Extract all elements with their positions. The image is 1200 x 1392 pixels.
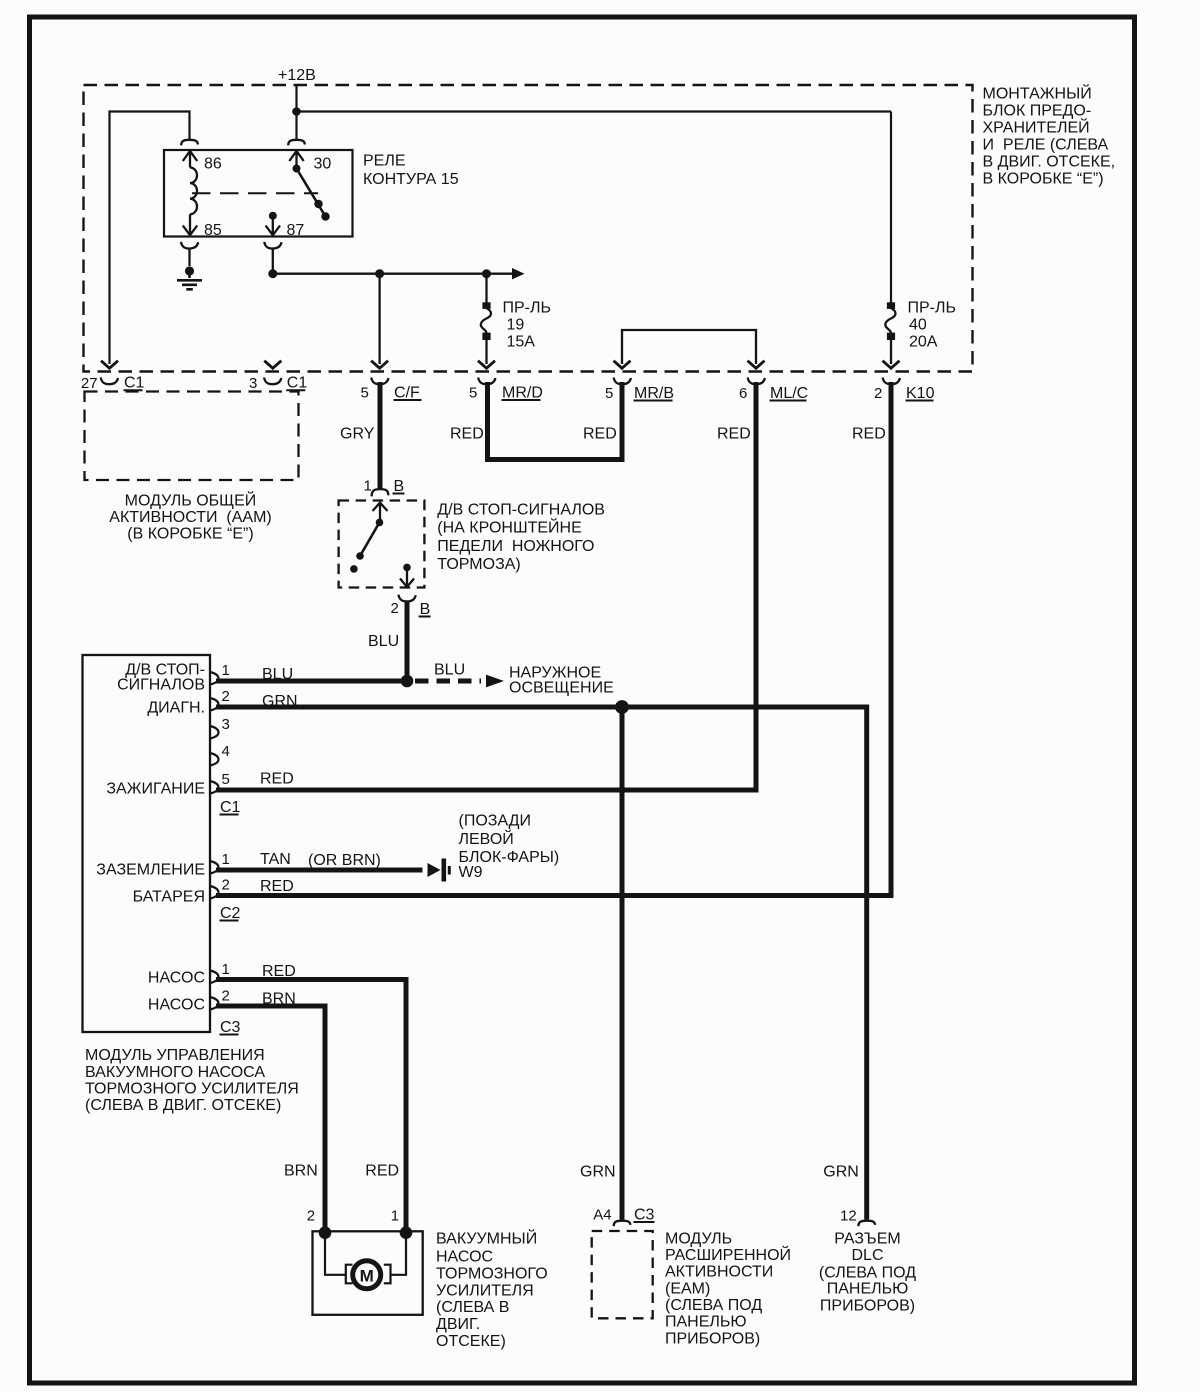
svg-text:DLC: DLC [851, 1247, 883, 1264]
node pin 87 bus junction [268, 269, 277, 278]
relay pin 87 arrow [266, 216, 280, 236]
svg-text:(СЛЕВА ПОД: (СЛЕВА ПОД [819, 1264, 916, 1281]
wire GRY from C/F to stop lamp switch [378, 382, 383, 489]
svg-text:GRN: GRN [823, 1164, 859, 1181]
arrow pin 87 bus continuation [512, 268, 525, 279]
svg-text:20А: 20А [909, 334, 938, 351]
wire BLU dashed to exterior lighting [415, 679, 481, 684]
node branch to C/F [375, 269, 384, 278]
svg-text:АКТИВНОСТИ: АКТИВНОСТИ [665, 1264, 773, 1281]
svg-text:(СЛЕВА В: (СЛЕВА В [436, 1299, 509, 1316]
svg-text:В ДВИГ. ОТСЕКЕ,: В ДВИГ. ОТСЕКЕ, [983, 154, 1116, 171]
svg-text:УСИЛИТЕЛЯ: УСИЛИТЕЛЯ [436, 1282, 534, 1299]
svg-text:RED: RED [583, 426, 617, 443]
svg-text:BLU: BLU [434, 662, 465, 679]
svg-text:ОТСЕКЕ): ОТСЕКЕ) [436, 1333, 506, 1350]
wire RED from ML/C to module pin 5 [216, 382, 756, 790]
svg-text:БЛОК ПРЕДО-: БЛОК ПРЕДО- [983, 103, 1092, 120]
svg-text:ПЕДЕЛИ НОЖНОГО: ПЕДЕЛИ НОЖНОГО [437, 538, 594, 555]
svg-text:C1: C1 [124, 375, 145, 392]
svg-text:ХРАНИТЕЛЕЙ: ХРАНИТЕЛЕЙ [983, 118, 1090, 137]
wire fuse 40 feed drop [890, 112, 892, 306]
connector foot below relay pin 85 [181, 242, 198, 249]
connector hat above relay pin 30 [288, 140, 305, 146]
svg-text:ВАКУУМНОГО НАСОСА: ВАКУУМНОГО НАСОСА [85, 1064, 265, 1081]
wire pin 87 horizontal bus [273, 273, 512, 275]
svg-text:ЗАЖИГАНИЕ: ЗАЖИГАНИЕ [106, 781, 205, 798]
svg-text:ДВИГ.: ДВИГ. [436, 1316, 480, 1333]
svg-text:+12В: +12В [278, 67, 316, 84]
svg-text:ML/C: ML/C [770, 385, 808, 402]
svg-text:RED: RED [450, 426, 484, 443]
svg-text:3: 3 [222, 716, 230, 733]
svg-text:1: 1 [364, 478, 372, 495]
wire TAN module ground pin to W9 [216, 868, 423, 873]
svg-text:ПРИБОРОВ): ПРИБОРОВ) [665, 1330, 760, 1347]
svg-text:MR/D: MR/D [502, 385, 543, 402]
connector foot 6 ML/C [748, 378, 765, 385]
svg-text:СИГНАЛОВ: СИГНАЛОВ [117, 677, 205, 694]
svg-text:BRN: BRN [284, 1162, 318, 1179]
wire BLU module pin 1 to junction [216, 679, 407, 684]
wire GRN branch down to EAM [620, 707, 625, 1220]
vacuum pump box [313, 1231, 423, 1315]
wire relay pin 85 to ground [188, 249, 190, 267]
node junction +12V bus [292, 107, 301, 116]
svg-text:C/F: C/F [394, 385, 420, 402]
svg-text:15А: 15А [507, 334, 536, 351]
svg-text:2: 2 [874, 385, 882, 402]
svg-text:МОДУЛЬ УПРАВЛЕНИЯ: МОДУЛЬ УПРАВЛЕНИЯ [85, 1047, 265, 1064]
svg-text:КОНТУРА 15: КОНТУРА 15 [363, 171, 459, 188]
relay pin 30 arrow [289, 151, 303, 169]
wire relay pin 87 down to bus node [272, 249, 274, 274]
wire RED from K10 to module battery pin [216, 382, 891, 896]
connector foot 5 MR/D [478, 378, 495, 385]
svg-text:НАСОС: НАСОС [148, 970, 205, 987]
svg-text:B: B [394, 478, 405, 495]
svg-text:GRN: GRN [580, 1164, 616, 1181]
stop lamp switch dashed box [339, 501, 425, 588]
svg-text:40: 40 [909, 317, 927, 334]
svg-text:2: 2 [391, 600, 399, 617]
ground symbol G1 [185, 266, 194, 275]
svg-text:М: М [360, 1267, 374, 1286]
arrow into connector 27 C1 [101, 361, 118, 369]
connector hat above relay pin 86 [181, 140, 198, 146]
connector foot 27 C1 [101, 378, 118, 385]
wire fuse 19 to connector MR/D [485, 339, 487, 364]
svg-text:ПАНЕЛЬЮ: ПАНЕЛЬЮ [827, 1280, 909, 1297]
connector foot 3 C1 [264, 378, 281, 385]
svg-text:МОНТАЖНЫЙ: МОНТАЖНЫЙ [983, 84, 1092, 103]
svg-text:ТОРМОЗНОГО: ТОРМОЗНОГО [436, 1266, 548, 1283]
svg-text:RED: RED [852, 426, 886, 443]
node GRN junction [615, 700, 629, 714]
node pump pin 1 [400, 1226, 413, 1239]
svg-text:MR/B: MR/B [634, 385, 674, 402]
svg-text:МОДУЛЬ ОБЩЕЙ: МОДУЛЬ ОБЩЕЙ [125, 491, 257, 510]
wire BLU from switch pin 2 to junction [405, 601, 410, 682]
wire branch down to connector C/F [378, 274, 380, 364]
svg-text:ПР-ЛЬ: ПР-ЛЬ [908, 300, 957, 317]
arrow into connector 6 ML/C [748, 361, 765, 369]
module pin 1 C3 [210, 971, 219, 984]
svg-text:ТОРМОЗНОГО УСИЛИТЕЛЯ: ТОРМОЗНОГО УСИЛИТЕЛЯ [85, 1081, 299, 1098]
switch pin 1 arrow [373, 503, 388, 523]
switch blade end node [356, 552, 364, 560]
svg-text:85: 85 [204, 222, 222, 239]
wire loop MR/B to ML/C [622, 330, 756, 364]
relay coil-contact dashed link [192, 192, 318, 194]
svg-text:C3: C3 [220, 1019, 241, 1036]
svg-text:(В КОРОБКЕ “Е”): (В КОРОБКЕ “Е”) [127, 525, 253, 542]
svg-text:30: 30 [314, 156, 332, 173]
ground W9 symbol [428, 863, 441, 877]
switch pin 2 arrow [400, 567, 414, 587]
svg-text:C1: C1 [287, 375, 308, 392]
switch pin 2 node [403, 564, 411, 572]
connector foot 5 C/F [371, 378, 388, 385]
relay contact pivot node [293, 165, 301, 173]
arrow into connector 5 C/F [371, 361, 388, 369]
svg-text:3: 3 [249, 375, 257, 392]
svg-text:ОСВЕЩЕНИЕ: ОСВЕЩЕНИЕ [509, 680, 614, 697]
arrow BLU to exterior lighting [486, 675, 504, 688]
wire +12V drop to relay pin 30 [295, 85, 297, 140]
svg-text:(СЛЕВА В ДВИГ. ОТСЕКЕ): (СЛЕВА В ДВИГ. ОТСЕКЕ) [85, 1097, 281, 1114]
wire fuse 40 to connector K10 [890, 339, 892, 364]
relay pin 86 arrow [183, 151, 197, 168]
svg-text:ЛЕВОЙ: ЛЕВОЙ [459, 829, 514, 848]
svg-text:GRY: GRY [340, 426, 375, 443]
node pump pin 2 [319, 1226, 332, 1239]
svg-text:5: 5 [469, 385, 477, 402]
svg-text:5: 5 [361, 385, 369, 402]
svg-text:BRN: BRN [262, 991, 296, 1008]
module pin 1 C2 [210, 861, 219, 874]
wire +12V bus to fuse 40 [297, 110, 892, 112]
svg-text:2: 2 [222, 988, 230, 1005]
motor M1 circle [353, 1261, 381, 1289]
relay contact blade [297, 169, 326, 217]
switch blade [360, 522, 380, 556]
module pin 2 C1 [210, 698, 219, 711]
svg-text:A4: A4 [593, 1207, 611, 1224]
arrow into connector 5 MR/B [614, 361, 631, 369]
svg-text:НАСОС: НАСОС [148, 997, 205, 1014]
relay K (circuit 15) box [164, 150, 353, 237]
wire branch down to fuse 19 [485, 274, 487, 305]
svg-text:87: 87 [287, 222, 305, 239]
relay pin 85 arrow [183, 214, 197, 235]
svg-text:МОДУЛЬ: МОДУЛЬ [665, 1230, 732, 1247]
svg-text:6: 6 [739, 385, 747, 402]
arrow into connector 2 K10 [883, 361, 900, 369]
svg-text:РЕЛЕ: РЕЛЕ [363, 153, 406, 170]
svg-text:ЗАЗЕМЛЕНИЕ: ЗАЗЕМЛЕНИЕ [96, 862, 205, 879]
module pin 2 C2 [210, 886, 219, 899]
svg-text:Д/В СТОП-СИГНАЛОВ: Д/В СТОП-СИГНАЛОВ [437, 502, 605, 519]
svg-text:1: 1 [222, 851, 230, 868]
svg-text:C2: C2 [220, 905, 241, 922]
arrow into connector 3 C1 [264, 361, 281, 369]
svg-text:1: 1 [222, 662, 230, 679]
module pin 1 C1 [210, 672, 219, 685]
node branch to fuse 19 [482, 269, 491, 278]
svg-text:19: 19 [507, 317, 525, 334]
svg-text:ПРИБОРОВ): ПРИБОРОВ) [820, 1298, 915, 1315]
svg-text:RED: RED [717, 426, 751, 443]
relay coil [190, 168, 197, 215]
svg-text:RED: RED [262, 963, 296, 980]
svg-text:(ПОЗАДИ: (ПОЗАДИ [459, 813, 531, 830]
svg-text:2: 2 [222, 688, 230, 705]
connector hat at switch pin 1 [372, 489, 389, 496]
svg-text:27: 27 [81, 375, 98, 392]
module pin 4 C1 [210, 753, 219, 766]
AAM module dashed box [85, 392, 299, 481]
connector foot below switch pin 2 [399, 595, 416, 602]
wire RED loop MR/D to MR/B [488, 382, 623, 460]
svg-text:RED: RED [365, 1162, 399, 1179]
svg-text:GRN: GRN [262, 693, 298, 710]
fuse/relay block dashed box [84, 85, 973, 372]
svg-text:ТОРМОЗА): ТОРМОЗА) [437, 556, 520, 573]
svg-text:BLU: BLU [368, 633, 399, 650]
module pin 5 C1 [210, 781, 219, 794]
wire BRN module pump pin 2 to vacuum pump [216, 1006, 325, 1231]
svg-text:РАЗЪЕМ: РАЗЪЕМ [834, 1230, 900, 1247]
arrow into connector 5 MR/D [478, 361, 495, 369]
svg-text:2: 2 [222, 877, 230, 894]
svg-text:РАСШИРЕННОЙ: РАСШИРЕННОЙ [665, 1245, 791, 1264]
pump control module box [83, 655, 211, 1032]
svg-text:ДИАГН.: ДИАГН. [147, 700, 205, 717]
svg-text:B: B [420, 601, 431, 618]
switch throw contact node [350, 565, 358, 573]
svg-text:И РЕЛЕ (СЛЕВА: И РЕЛЕ (СЛЕВА [983, 137, 1109, 154]
svg-text:ПАНЕЛЬЮ: ПАНЕЛЬЮ [665, 1314, 747, 1331]
EAM module dashed box [592, 1231, 653, 1318]
svg-text:(OR BRN): (OR BRN) [308, 852, 381, 869]
svg-text:В КОРОБКЕ “Е”): В КОРОБКЕ “Е”) [983, 171, 1104, 188]
svg-text:W9: W9 [459, 864, 483, 881]
svg-text:5: 5 [605, 385, 613, 402]
svg-text:5: 5 [222, 771, 230, 788]
pump internal wire pin 2 [325, 1233, 346, 1275]
wire relay pin 86 to connector 27 [110, 112, 190, 365]
svg-text:1: 1 [222, 961, 230, 978]
svg-text:12: 12 [840, 1208, 857, 1225]
svg-text:RED: RED [260, 770, 294, 787]
svg-text:НАСОС: НАСОС [436, 1249, 493, 1266]
pump internal wire pin 1 [391, 1233, 406, 1275]
svg-text:АКТИВНОСТИ (ААМ): АКТИВНОСТИ (ААМ) [109, 509, 271, 526]
switch pivot node [376, 519, 384, 527]
connector hat at EAM [614, 1221, 631, 1227]
connector hat at DLC [858, 1221, 875, 1227]
svg-text:K10: K10 [906, 385, 935, 402]
svg-text:BLU: BLU [262, 666, 293, 683]
module pin 3 C1 [210, 726, 219, 739]
relay blade end node [314, 200, 322, 208]
svg-text:(НА КРОНШТЕЙНЕ: (НА КРОНШТЕЙНЕ [437, 518, 581, 537]
svg-text:C3: C3 [634, 1207, 655, 1224]
wire GRN module pin 2 to DLC [216, 707, 867, 1220]
node BLU junction [401, 675, 414, 688]
connector foot 5 MR/B [614, 378, 631, 385]
svg-text:4: 4 [222, 743, 230, 760]
relay contact 87 throw node [321, 212, 329, 220]
svg-text:C1: C1 [220, 799, 241, 816]
module pin 2 C3 [210, 997, 219, 1010]
svg-text:(ЕАМ): (ЕАМ) [665, 1280, 710, 1297]
svg-text:86: 86 [204, 156, 222, 173]
svg-text:TAN: TAN [260, 851, 291, 868]
wire RED module pump pin 1 to vacuum pump [216, 980, 406, 1232]
svg-text:ПР-ЛЬ: ПР-ЛЬ [503, 300, 552, 317]
connector foot below relay pin 87 [264, 242, 281, 249]
svg-text:RED: RED [260, 878, 294, 895]
connector foot 2 K10 [883, 378, 900, 385]
svg-text:2: 2 [307, 1208, 315, 1225]
fuse F19 [482, 302, 490, 309]
motor terminal left [346, 1265, 353, 1284]
svg-text:1: 1 [391, 1208, 399, 1225]
fuse F40 [887, 302, 895, 309]
svg-text:(СЛЕВА ПОД: (СЛЕВА ПОД [665, 1297, 762, 1314]
motor terminal right [384, 1265, 391, 1284]
svg-text:БАТАРЕЯ: БАТАРЕЯ [133, 889, 205, 906]
svg-text:ВАКУУМНЫЙ: ВАКУУМНЫЙ [436, 1228, 537, 1247]
relay pin 87 node [269, 212, 277, 220]
